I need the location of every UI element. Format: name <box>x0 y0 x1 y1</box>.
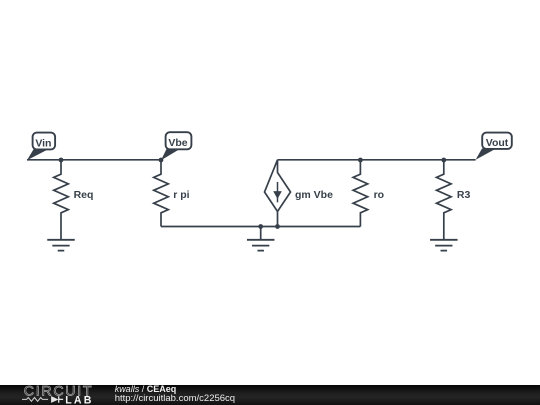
node junction dot (ground mid) <box>258 224 263 229</box>
ground G3 (under R3) <box>430 240 458 251</box>
node junction dot (source bottom) <box>275 224 280 229</box>
wire right rail Vout net <box>278 159 476 161</box>
svg-text:Req: Req <box>74 189 94 201</box>
CircuitLab logo <box>0 384 110 405</box>
footer line 2: url <box>115 394 235 404</box>
svg-text:r pi: r pi <box>173 189 189 201</box>
svg-text:Vout: Vout <box>486 137 509 149</box>
ground G1 (under Req) <box>47 240 75 251</box>
svg-text:LAB: LAB <box>65 395 93 405</box>
svg-text:ro: ro <box>374 189 385 201</box>
wire bottom bus <box>161 226 360 228</box>
ground middle stem <box>260 227 262 240</box>
resistor R3 <box>437 160 452 240</box>
resistor r pi <box>154 160 169 227</box>
current source gm Vbe diamond <box>265 160 291 227</box>
resistor ro <box>353 160 368 227</box>
node junction dot (Vin/Req) <box>59 158 64 163</box>
ground G2 (middle) <box>247 240 275 251</box>
net flag Vout <box>476 133 512 160</box>
node junction dot (R3 top) <box>441 158 446 163</box>
svg-text:gm Vbe: gm Vbe <box>295 189 333 201</box>
net flag Vin <box>27 133 55 161</box>
net flag Vbe <box>161 132 191 160</box>
resistor Req <box>54 160 69 240</box>
node junction dot (ro top) <box>358 158 363 163</box>
wire left rail Vin-Vbe <box>27 159 161 161</box>
current source arrow <box>274 182 282 202</box>
svg-text:Vbe: Vbe <box>168 137 187 149</box>
node junction dot (Vbe) <box>159 158 164 163</box>
svg-text:R3: R3 <box>457 189 471 201</box>
svg-text:Vin: Vin <box>35 137 51 149</box>
footer line 1: kwalls / CEAeq <box>115 384 177 394</box>
footer bar <box>0 385 540 405</box>
